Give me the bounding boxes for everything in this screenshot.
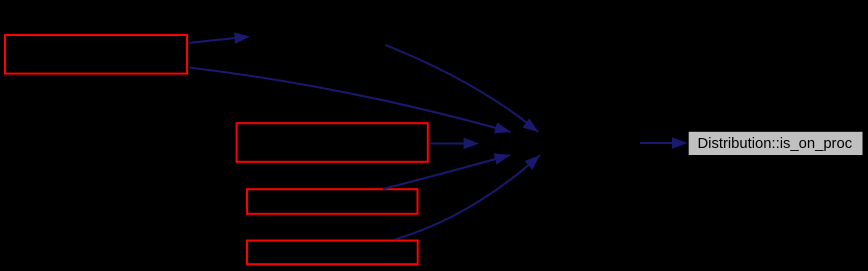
edge G: hidden node M -> Distribution::is_on_proc [640,137,688,149]
edge A: box1 -> hidden node N1 [189,32,251,44]
edge C: box1 -> hidden node M (long, gentle) [189,68,511,134]
node box4 (truncated caller, red) [247,241,418,265]
edge E: box3 -> hidden node M [383,153,510,189]
node box1 (truncated caller, red) [5,35,187,74]
node Distribution::is_on_proc (current, grey) [689,132,863,155]
edge D: box2 -> hidden node M (horizontal) [430,138,480,150]
node box2 (truncated caller, red) [237,123,428,162]
svg-text:Distribution::is_on_proc: Distribution::is_on_proc [697,136,852,152]
edge F: box4 -> hidden node M (curved) [395,155,540,240]
node box3 (truncated caller, red) [247,189,418,214]
edge B: hidden node N1 -> hidden node M (curved) [386,45,539,132]
